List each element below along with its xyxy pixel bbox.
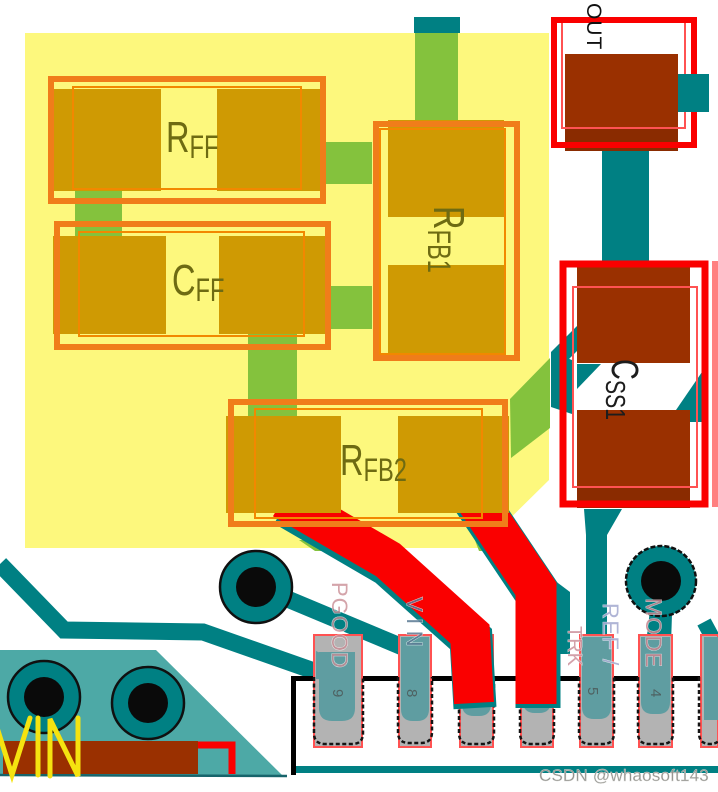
label RFB1 (rotated)	[421, 206, 472, 273]
svg-text:9: 9	[329, 689, 346, 697]
wire green sliver under left red trace	[299, 540, 330, 551]
via C (PGOOD)	[220, 551, 292, 623]
wire teal OUT pad to CSS1 top pad	[602, 148, 649, 268]
label VIN pin 8	[402, 597, 427, 653]
via D (MODE)	[626, 546, 696, 616]
wire teal notch triangle inside CSS1 body	[577, 364, 601, 389]
label RFF	[166, 113, 218, 164]
pin 9 PGOOD	[314, 635, 363, 747]
wire teal vertical elbow left of CSS1	[551, 352, 572, 414]
wire teal stub to pin 3	[704, 622, 718, 648]
net highlight region (yellow)	[25, 33, 549, 548]
label VIN silkscreen big yellow	[0, 718, 78, 776]
svg-text:PGOOD: PGOOD	[327, 582, 352, 669]
pour bottom edge line	[0, 775, 287, 776]
label REF/ pin 5	[598, 603, 623, 667]
label CFF	[172, 256, 224, 307]
via A	[8, 661, 80, 733]
wire teal shadow of left red trace	[285, 505, 475, 708]
IC body left edge	[291, 676, 296, 775]
label PGOOD pin 9	[327, 582, 352, 669]
wire green vertical CFF right to RFB2	[248, 334, 297, 418]
wire green sliver under right red trace	[470, 527, 488, 551]
wire green stub RFF right to RFB1	[326, 142, 372, 184]
svg-text:4: 4	[647, 689, 664, 697]
resistor RFF	[49, 79, 326, 201]
svg-text:OUT: OUT	[582, 3, 605, 50]
pin 6	[520, 635, 554, 747]
svg-text:8: 8	[403, 689, 420, 697]
label TRK pin 5	[563, 626, 585, 667]
outline red corner fragment right of VIN pad	[198, 745, 232, 774]
pin 8 VIN	[398, 635, 432, 747]
pin 3 partial	[699, 635, 718, 747]
IC body top edge	[291, 676, 718, 681]
label CSS1 (rotated)	[599, 359, 646, 420]
svg-text:REF /: REF /	[598, 603, 623, 667]
wire green vertical RFF left to CFF left	[75, 191, 122, 236]
trace red right (RFB2 right pad to pin 6)	[467, 486, 536, 704]
wire teal tab right of OUT pad	[678, 74, 709, 112]
svg-text:VIN: VIN	[402, 597, 427, 653]
trace red left (RFB2 left pad to pin 7)	[283, 499, 474, 703]
resistor RFB2	[226, 402, 509, 524]
wire teal right leg under CSS1 right side	[676, 372, 702, 422]
wire green stub CFF right to RFB1 bottom	[326, 286, 372, 329]
capacitor CSS1	[563, 264, 705, 508]
svg-text:5: 5	[584, 687, 601, 695]
wire teal CSS1 bottom pad to pin 5	[584, 509, 622, 706]
wire teal diagonal under CSS1 (upper left leg)	[551, 326, 577, 377]
resistor RFB1	[376, 120, 517, 361]
pin 7	[459, 635, 494, 747]
svg-text:TRK: TRK	[563, 626, 585, 667]
copper pour light teal polygon bottom left	[0, 650, 282, 775]
wire teal bottom horizontal line	[293, 766, 718, 773]
outline pink line right edge (CSS1 area)	[712, 261, 718, 507]
wire green vertical to RFB1 top	[415, 33, 458, 123]
wire teal via D to pin 4	[647, 610, 672, 707]
label MODE pin 4	[641, 598, 666, 668]
wire teal stub top center	[414, 17, 460, 33]
component VIN pad (dark red rect bottom left)	[3, 741, 198, 774]
capacitor CFF	[53, 224, 331, 347]
svg-text:MODE: MODE	[641, 598, 666, 668]
pin 5 REF/TRK	[579, 635, 614, 747]
label RFB2	[340, 436, 407, 487]
wire teal via C to pin 8	[266, 590, 412, 651]
label OUT (rotated)	[582, 3, 605, 50]
capacitor OUT (top right)	[554, 20, 694, 151]
wire teal shadow of right red trace	[469, 491, 538, 708]
pin 4 MODE	[638, 635, 673, 747]
wire teal long trace from left edge to pin 9	[0, 564, 334, 678]
via B	[112, 667, 184, 739]
wire green diagonal RFB2 right pad to CSS1 area	[510, 358, 550, 458]
svg-text:CSDN @whaosoft143: CSDN @whaosoft143	[539, 766, 709, 785]
